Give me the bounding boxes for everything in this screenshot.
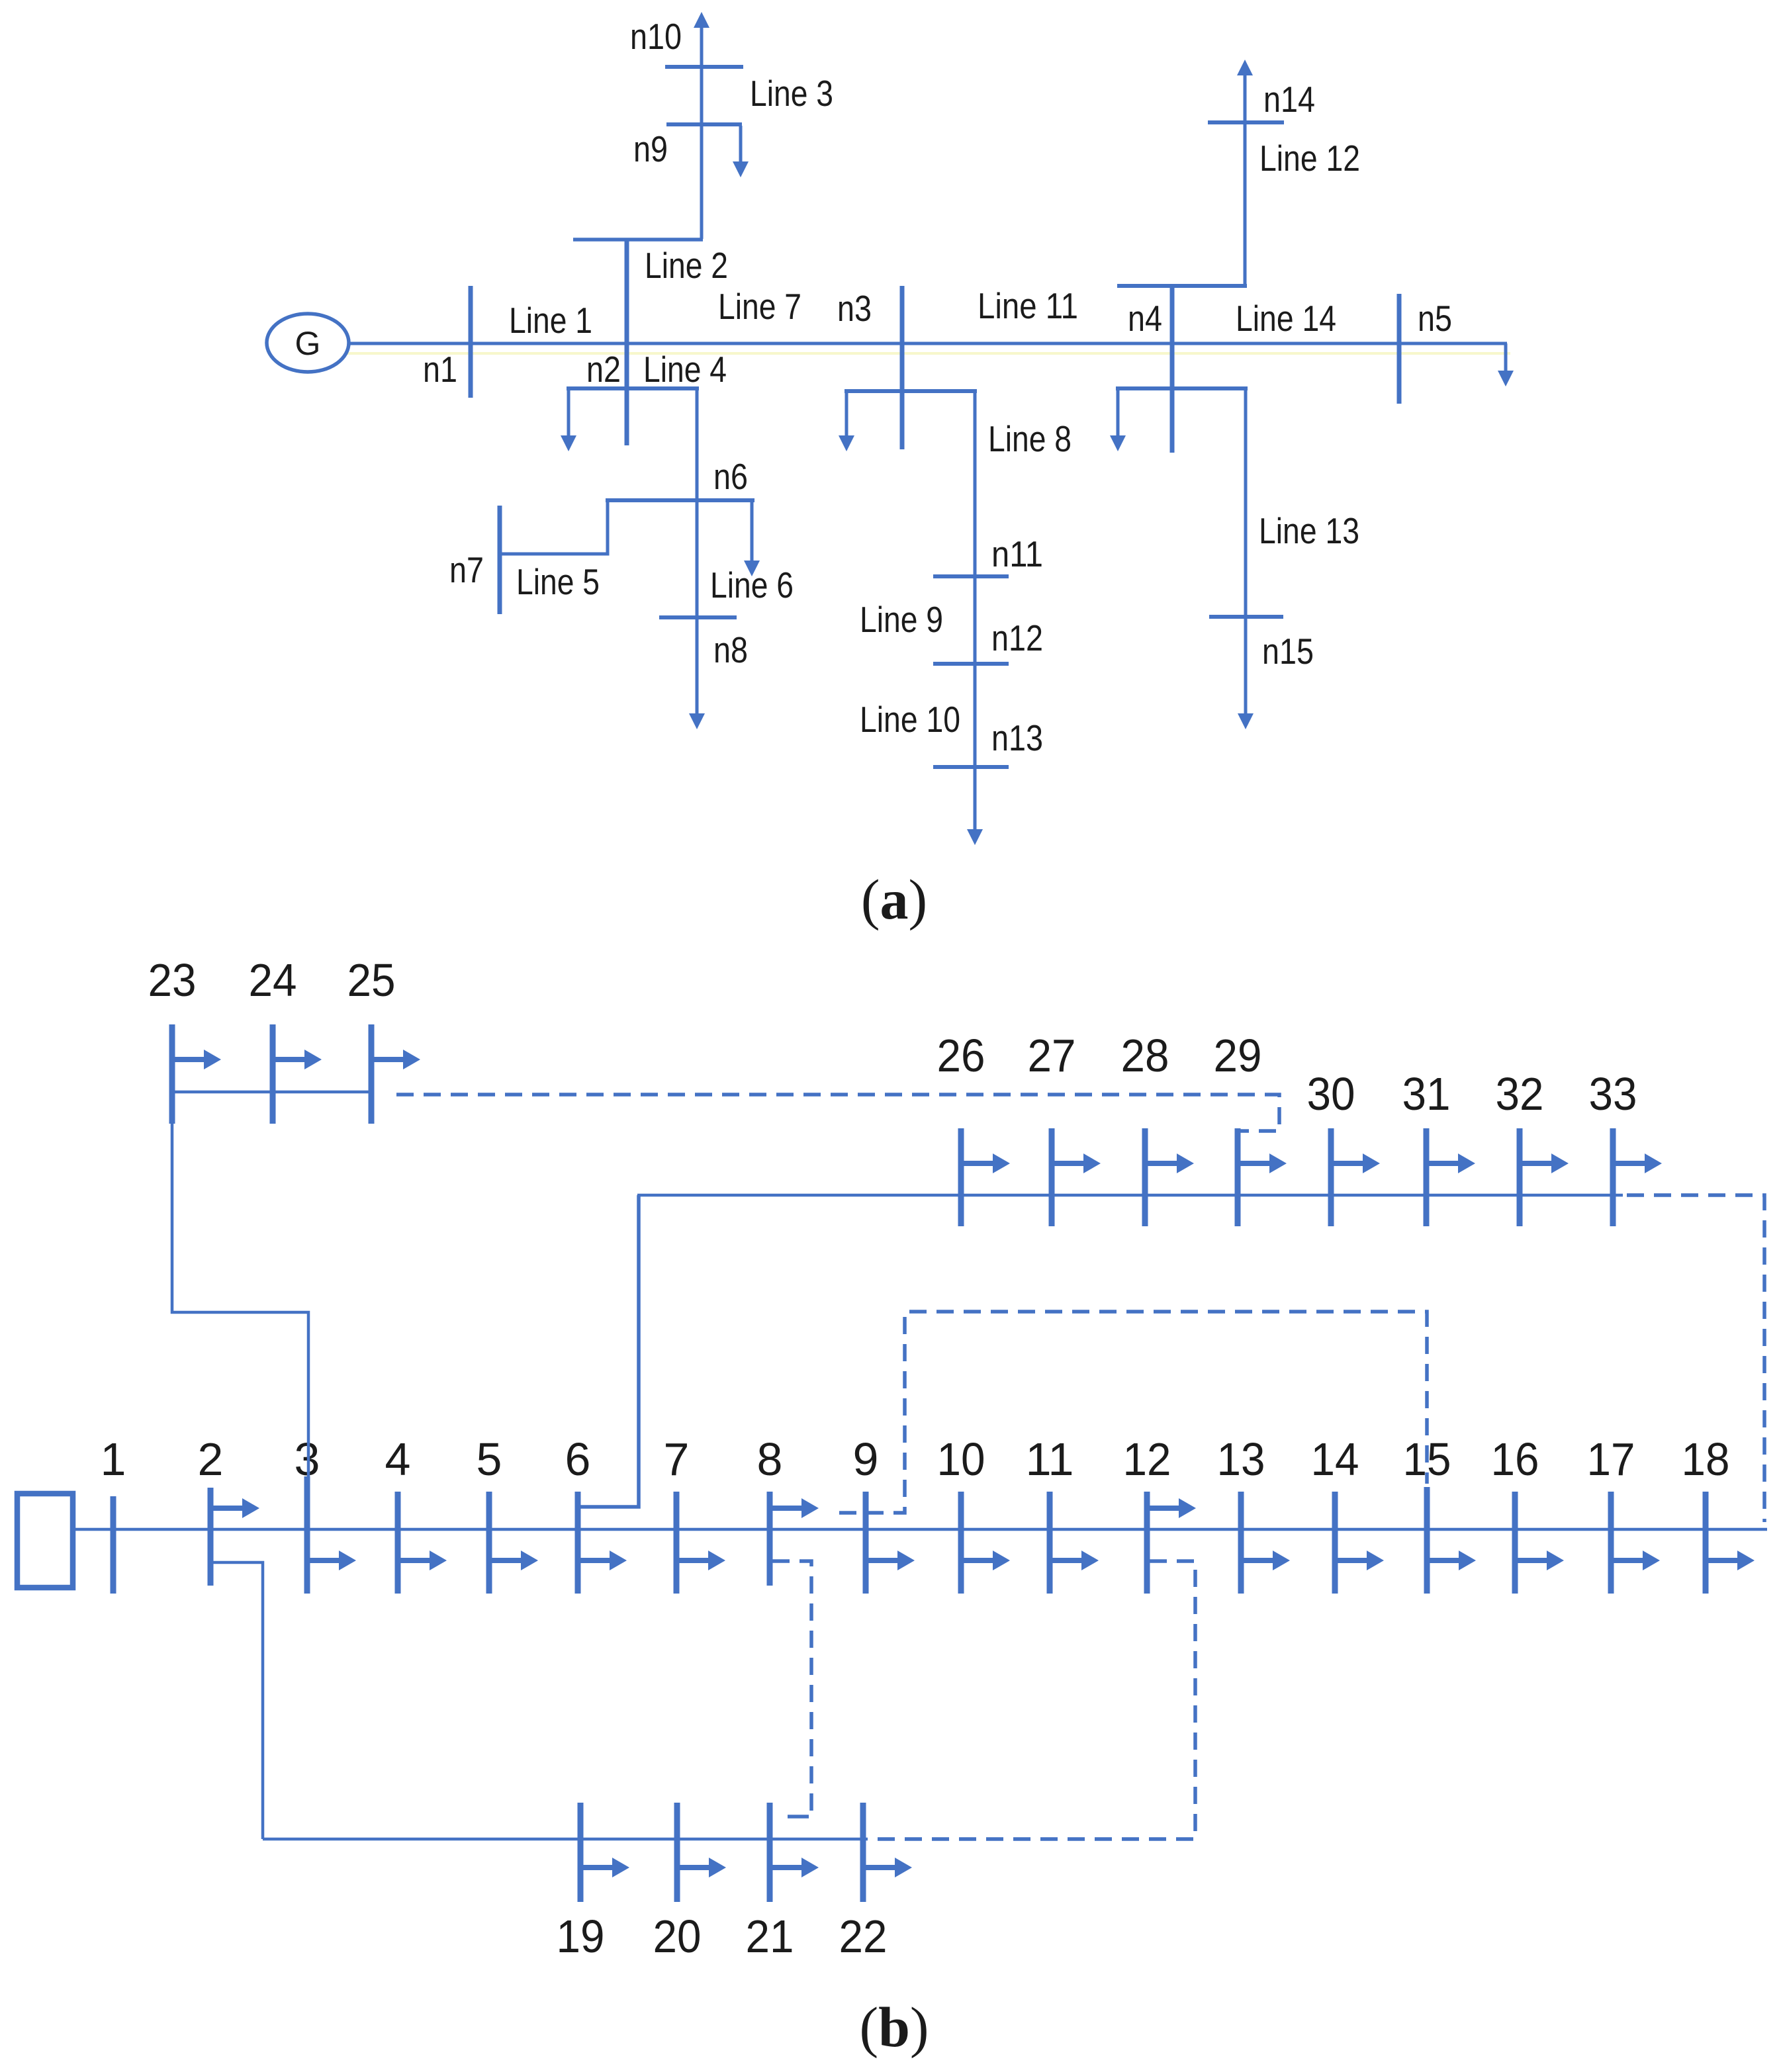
svg-text:n15: n15 — [1262, 631, 1314, 672]
load arrow bus 15 — [1427, 1551, 1476, 1570]
bus 21 — [767, 1803, 773, 1902]
svg-text:1: 1 — [101, 1433, 126, 1485]
bus n15 — [1209, 615, 1283, 619]
bus n1 — [469, 286, 473, 398]
svg-text:G: G — [295, 325, 321, 362]
load arrow bus 26 — [961, 1153, 1010, 1173]
svg-text:22: 22 — [839, 1911, 888, 1962]
load arrow bus 23 — [172, 1050, 221, 1069]
load arrow bus 16 — [1515, 1551, 1564, 1570]
svg-text:(b): (b) — [859, 1995, 929, 2059]
svg-text:Line 8: Line 8 — [988, 418, 1072, 459]
load arrow bus 8 — [770, 1498, 819, 1518]
bus 24 — [270, 1024, 276, 1124]
svg-text:33: 33 — [1589, 1068, 1637, 1120]
svg-text:n12: n12 — [991, 617, 1043, 658]
svg-text:14: 14 — [1311, 1433, 1359, 1485]
load arrow bus 5 — [489, 1551, 538, 1570]
svg-text:n8: n8 — [713, 629, 748, 670]
svg-text:10: 10 — [937, 1433, 985, 1485]
bus n3 (vertical through feeder) — [900, 286, 905, 449]
bus 3 — [304, 1476, 310, 1594]
svg-text:Line 3: Line 3 — [750, 73, 833, 114]
svg-text:Line 10: Line 10 — [860, 699, 960, 740]
substation source rectangle — [17, 1494, 73, 1588]
svg-text:28: 28 — [1121, 1030, 1169, 1081]
svg-text:20: 20 — [653, 1911, 702, 1962]
svg-text:27: 27 — [1028, 1030, 1076, 1081]
svg-text:Line 13: Line 13 — [1259, 510, 1359, 551]
bus 12 — [1144, 1492, 1150, 1594]
bus n10 — [665, 65, 743, 69]
bus n6 — [606, 498, 754, 502]
bus 26 — [958, 1128, 964, 1226]
tie line 8-21 (dashed) — [772, 1561, 811, 1812]
svg-text:Line 7: Line 7 — [718, 286, 801, 327]
bus n13 — [933, 765, 1009, 769]
load arrow bus 28 — [1145, 1153, 1194, 1173]
svg-text:(a): (a) — [861, 868, 927, 931]
wire branch 6-26 connector — [580, 1195, 639, 1507]
bus n8 — [659, 615, 737, 619]
load arrow at n2 — [561, 388, 576, 451]
bus 4 — [395, 1492, 401, 1594]
bus n14 — [1208, 120, 1284, 124]
bus 25 — [369, 1024, 375, 1124]
bus 19 — [578, 1803, 584, 1902]
load arrow bus 21 — [770, 1858, 819, 1877]
bus 27 — [1049, 1128, 1055, 1226]
bus 5 — [486, 1492, 492, 1594]
wire Line 13 vertical n4-n15 with load arrow — [1238, 388, 1254, 729]
svg-text:n10: n10 — [630, 16, 682, 57]
svg-text:21: 21 — [746, 1911, 794, 1962]
tie line 8-21 end stub (dashed) — [788, 1815, 809, 1819]
bus n7 — [498, 506, 502, 614]
bus n2 (vertical through feeder) — [625, 239, 629, 445]
bus 15 — [1424, 1487, 1430, 1594]
bus n4 (vertical through feeder) — [1170, 286, 1175, 453]
wire branch 3-23 connector — [172, 1124, 308, 1488]
load arrow bus 27 — [1052, 1153, 1101, 1173]
svg-text:24: 24 — [249, 954, 297, 1006]
load arrow bus 29 — [1238, 1153, 1287, 1173]
svg-text:Line 1: Line 1 — [509, 300, 592, 341]
svg-text:19: 19 — [557, 1911, 605, 1962]
wire branch line 26-33 — [637, 1194, 1623, 1197]
bus 7 — [674, 1492, 680, 1594]
load arrow bus 33 — [1613, 1153, 1662, 1173]
load arrow bus 3 — [307, 1551, 356, 1570]
svg-text:n14: n14 — [1263, 79, 1315, 120]
bus 2 — [208, 1488, 214, 1586]
bus n11 — [933, 574, 1009, 578]
load arrow bus 10 — [961, 1551, 1010, 1570]
bus 33 — [1610, 1128, 1616, 1226]
svg-text:17: 17 — [1587, 1433, 1635, 1485]
bus 10 — [958, 1492, 964, 1594]
svg-text:30: 30 — [1307, 1068, 1355, 1120]
svg-text:Line 9: Line 9 — [860, 599, 943, 640]
faint artifact line under feeder (a) — [308, 352, 1510, 355]
bus n9 — [666, 122, 742, 126]
load arrow bus 12 — [1147, 1498, 1196, 1518]
svg-text:31: 31 — [1402, 1068, 1451, 1120]
svg-text:n4: n4 — [1128, 298, 1162, 339]
wire main feeder (b) buses 1-18 — [73, 1528, 1767, 1531]
svg-text:25: 25 — [347, 954, 396, 1006]
load arrow bus 6 — [578, 1551, 627, 1570]
bus 31 — [1424, 1128, 1430, 1226]
tie line 12-22 (dashed) — [872, 1561, 1195, 1839]
load arrow bus 2 — [210, 1498, 259, 1518]
load arrow bus 7 — [676, 1551, 725, 1570]
load arrow Line 6 at n6 — [744, 500, 760, 576]
bus n5 — [1397, 294, 1402, 404]
wire main feeder (a): Line 1 / Line 7 / Line 11 / Line 14 — [349, 342, 1507, 345]
load arrow bus 32 — [1520, 1153, 1569, 1173]
wire Line 13 top bar at n4 — [1116, 386, 1248, 390]
load arrow bus 18 — [1706, 1551, 1755, 1570]
svg-text:n6: n6 — [713, 456, 748, 497]
svg-text:29: 29 — [1214, 1030, 1262, 1081]
load arrow at feeder right end (after n5) — [1498, 343, 1514, 386]
svg-text:n13: n13 — [991, 717, 1043, 758]
bus 8 — [767, 1492, 773, 1586]
svg-text:Line 14: Line 14 — [1236, 298, 1336, 339]
wire Line 4 top bar at n2 — [567, 386, 699, 390]
load arrow bus 17 — [1611, 1551, 1660, 1570]
bus n12 — [933, 662, 1009, 666]
load arrow bus 4 — [398, 1551, 447, 1570]
load arrow bus 9 — [866, 1551, 915, 1570]
svg-text:23: 23 — [148, 954, 197, 1006]
wire Line 5 jog n6 to n7 — [500, 500, 608, 554]
svg-text:16: 16 — [1491, 1433, 1539, 1485]
svg-text:Line 6: Line 6 — [710, 564, 794, 606]
svg-text:n1: n1 — [423, 349, 457, 390]
bus 18 — [1703, 1492, 1709, 1594]
tie line 9-15 (dashed) — [839, 1312, 1427, 1513]
svg-text:n7: n7 — [449, 549, 484, 590]
bus 29 — [1235, 1128, 1241, 1226]
svg-text:n3: n3 — [837, 288, 872, 329]
bus 17 — [1608, 1492, 1614, 1594]
load arrow bus 13 — [1241, 1551, 1290, 1570]
load arrow bus 24 — [273, 1050, 322, 1069]
load arrow bus 11 — [1050, 1551, 1099, 1570]
load arrow bus 22 — [863, 1858, 912, 1877]
load arrow bus 19 — [580, 1858, 629, 1877]
svg-text:32: 32 — [1496, 1068, 1544, 1120]
bus 6 — [575, 1492, 581, 1594]
bus 32 — [1517, 1128, 1523, 1226]
svg-text:11: 11 — [1026, 1433, 1074, 1485]
tie line 18-33 (dashed) — [1627, 1195, 1764, 1522]
bus 16 — [1512, 1492, 1518, 1594]
wire Line 2 jog bar — [573, 238, 703, 242]
bus 11 — [1047, 1492, 1053, 1594]
load arrow at n4 — [1110, 388, 1126, 451]
svg-text:9: 9 — [853, 1433, 879, 1485]
bus 20 — [674, 1803, 680, 1902]
load arrow at n9 — [733, 126, 749, 177]
load arrow at n3 — [839, 391, 854, 451]
wire Line 8/9/10 vertical n3-n11-n12-n13 with load arrow — [967, 391, 983, 845]
svg-text:8: 8 — [757, 1433, 783, 1485]
wire Line 8 top bar at n3 — [845, 389, 977, 393]
tie line 25-29 (dashed) — [396, 1095, 1279, 1131]
svg-text:12: 12 — [1123, 1433, 1171, 1485]
svg-text:Line 4: Line 4 — [643, 349, 727, 390]
bus 9 — [863, 1492, 869, 1594]
generator G — [267, 314, 349, 372]
svg-text:Line 11: Line 11 — [978, 285, 1078, 326]
svg-text:Line 5: Line 5 — [516, 561, 600, 602]
svg-text:18: 18 — [1682, 1433, 1730, 1485]
load arrow bus 31 — [1426, 1153, 1475, 1173]
svg-text:Line 12: Line 12 — [1259, 138, 1360, 179]
svg-text:2: 2 — [198, 1433, 224, 1485]
wire branch line 23-25 — [171, 1091, 373, 1094]
load arrow bus 14 — [1335, 1551, 1384, 1570]
svg-text:n5: n5 — [1418, 298, 1452, 339]
wire branch 2-19 connector — [213, 1562, 263, 1839]
svg-text:5: 5 — [477, 1433, 502, 1485]
bus 23 — [169, 1024, 175, 1124]
svg-text:6: 6 — [565, 1433, 591, 1485]
load arrow bus 20 — [677, 1858, 726, 1877]
svg-text:n11: n11 — [991, 533, 1043, 574]
wire Line 2 riser with source arrow up — [694, 12, 709, 239]
wire Line 12 jog bar at n4 — [1117, 284, 1247, 288]
svg-text:7: 7 — [664, 1433, 690, 1485]
svg-text:13: 13 — [1217, 1433, 1265, 1485]
bus 1 — [111, 1496, 116, 1594]
svg-text:n9: n9 — [633, 128, 668, 169]
bus 14 — [1332, 1492, 1338, 1594]
bus 13 — [1238, 1492, 1244, 1594]
wire branch line 19-22 — [263, 1838, 868, 1841]
wire Line 12 riser with source arrow up — [1237, 60, 1253, 286]
svg-text:Line 2: Line 2 — [645, 245, 728, 286]
bus 30 — [1328, 1128, 1334, 1226]
load arrow bus 25 — [371, 1050, 420, 1069]
wire Line 4 vertical n2-n6-n8 with load arrow — [689, 388, 705, 729]
svg-text:n2: n2 — [586, 349, 621, 390]
bus 22 — [860, 1803, 866, 1902]
svg-text:26: 26 — [937, 1030, 985, 1081]
bus 28 — [1142, 1128, 1148, 1226]
load arrow bus 30 — [1331, 1153, 1380, 1173]
svg-text:4: 4 — [385, 1433, 411, 1485]
